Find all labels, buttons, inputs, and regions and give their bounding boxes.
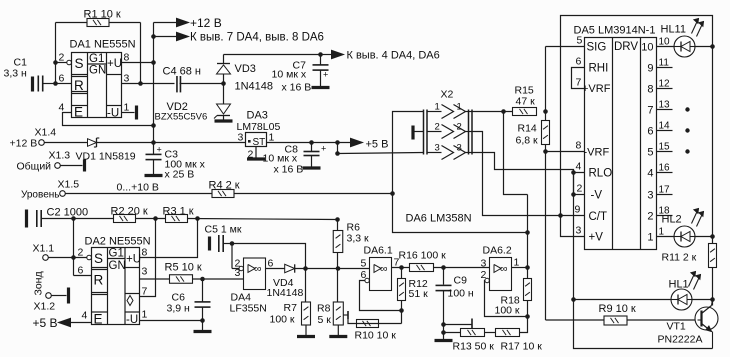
svg-text:10: 10 — [659, 37, 671, 48]
wire pin7 riser — [140, 219, 156, 297]
connector X2 housing — [424, 110, 473, 155]
svg-text:х 25 В: х 25 В — [165, 169, 195, 181]
node R18 bottom — [525, 314, 530, 319]
svg-text:HL2: HL2 — [662, 214, 682, 226]
wire — [154, 142, 246, 144]
resistor R14 — [516, 112, 550, 152]
svg-text:SIG: SIG — [587, 42, 607, 54]
svg-text:LF355N: LF355N — [230, 303, 267, 315]
node rail arrow2 — [151, 34, 156, 39]
svg-text:R17 10 к: R17 10 к — [501, 341, 543, 353]
svg-text:3,3 к: 3,3 к — [347, 233, 370, 245]
svg-text:VT1: VT1 — [667, 321, 686, 333]
svg-text:1: 1 — [269, 132, 275, 144]
svg-text:47 к: 47 к — [516, 96, 536, 108]
ground C6 — [194, 321, 212, 332]
svg-text:3: 3 — [481, 258, 487, 270]
wire -VRF stub — [546, 151, 585, 153]
trimmer tap R13 — [444, 319, 473, 329]
resistor R7 — [270, 269, 311, 326]
svg-text:R13 50 к: R13 50 к — [453, 341, 495, 353]
svg-text:R10 10 к: R10 10 к — [355, 330, 397, 342]
svg-text:BZX55C5V6: BZX55C5V6 — [155, 112, 208, 123]
terminal X1.2 — [34, 293, 56, 313]
node level tap — [390, 191, 395, 196]
node R14 bottom — [543, 149, 548, 154]
svg-text:3: 3 — [435, 143, 440, 154]
wire +5V riser — [337, 143, 339, 154]
ground C7 — [312, 71, 330, 88]
wire — [188, 219, 338, 220]
svg-text:2: 2 — [457, 122, 462, 133]
svg-text:6: 6 — [59, 73, 65, 85]
svg-text:G1: G1 — [109, 248, 124, 260]
label DA6 — [406, 213, 472, 225]
wire DA3 out — [267, 142, 351, 144]
wire — [55, 23, 57, 84]
wire — [193, 278, 244, 280]
svg-text:DA1 NE555N: DA1 NE555N — [70, 39, 136, 51]
op-amp DA4 LF355N — [239, 258, 266, 290]
wire pin2 riser DA4 — [232, 244, 239, 269]
wire +V stub — [561, 16, 713, 237]
svg-text:RLO: RLO — [589, 168, 613, 180]
svg-text:G1: G1 — [89, 53, 104, 65]
svg-text:DA5 LM3914N-1: DA5 LM3914N-1 — [574, 25, 656, 37]
svg-text:4: 4 — [82, 310, 88, 322]
svg-text:Зонд: Зонд — [33, 271, 45, 295]
node R12 bottom — [399, 308, 404, 313]
svg-text:R1 10 к: R1 10 к — [84, 9, 121, 21]
svg-text:C4 68 н: C4 68 н — [163, 66, 201, 78]
svg-text:+5 В: +5 В — [366, 139, 389, 151]
svg-text:1: 1 — [514, 257, 520, 269]
svg-text:C9: C9 — [454, 275, 468, 287]
arrow +5V DA2 pin4 — [33, 316, 92, 330]
capacitor C5 — [205, 224, 242, 253]
resistor R2 — [111, 206, 148, 223]
node pin3 DA1 — [138, 81, 143, 86]
node +5V rail DA2 — [335, 217, 340, 222]
node R5 C6 — [200, 277, 205, 282]
node +5V to X2 — [335, 151, 340, 156]
label DA6.1 — [364, 245, 393, 257]
node +5V branch — [335, 140, 340, 145]
svg-text:R11 2 к: R11 2 к — [662, 252, 697, 264]
connector X2 pin2 — [427, 122, 472, 139]
node HL2 right — [710, 234, 715, 239]
node feedback — [525, 230, 530, 235]
wire -V stub — [574, 194, 585, 196]
diode VD1 1N5819 — [76, 138, 136, 163]
resistor R15 — [513, 85, 537, 116]
wire — [574, 299, 713, 301]
wire — [136, 218, 166, 220]
wire DA6.2 fb — [485, 281, 528, 317]
resistor R12 — [398, 268, 429, 324]
svg-text:R16 100 к: R16 100 к — [399, 250, 447, 262]
svg-text:9: 9 — [647, 63, 653, 75]
svg-text:1N4148: 1N4148 — [235, 81, 274, 93]
svg-text:1: 1 — [659, 227, 665, 238]
arrow +5 V — [351, 138, 389, 150]
svg-text:8: 8 — [647, 84, 653, 96]
svg-text:х 16 В: х 16 В — [274, 164, 304, 176]
timer DA1 NE555N — [67, 53, 122, 120]
svg-text:R9 10 к: R9 10 к — [599, 303, 636, 315]
svg-text:5 к: 5 к — [318, 314, 332, 326]
pin numbers DA3 — [238, 132, 275, 161]
label Zond — [33, 271, 45, 295]
wire — [485, 332, 496, 334]
terminal X1.4 — [10, 127, 57, 150]
resistor R1 — [84, 9, 121, 27]
svg-text:X1.5: X1.5 — [58, 179, 80, 191]
svg-text:15: 15 — [659, 142, 671, 153]
capacitor C7 — [272, 55, 329, 94]
svg-text:DA3: DA3 — [247, 110, 268, 122]
svg-text:3: 3 — [238, 132, 244, 144]
svg-text:5: 5 — [361, 258, 367, 270]
svg-text:1: 1 — [124, 102, 130, 114]
node R6 R8 — [336, 266, 341, 271]
svg-text:2: 2 — [481, 269, 487, 281]
wire +V rail right — [712, 47, 714, 244]
svg-text:C5 1 мк: C5 1 мк — [205, 224, 242, 236]
svg-text:-U: -U — [126, 314, 138, 326]
terminal X1.1 — [33, 243, 55, 261]
wire — [295, 268, 370, 270]
pin numbers DA1 — [59, 52, 130, 114]
wire pin4 DA1 — [63, 113, 154, 126]
capacitor C4 — [163, 66, 201, 93]
node pin2 DA1 — [53, 60, 58, 65]
svg-text:E: E — [94, 312, 103, 327]
svg-text:RHI: RHI — [589, 63, 609, 75]
capacitor C3 — [146, 143, 206, 181]
wire monitor riser — [504, 112, 528, 195]
node C9 tap — [441, 322, 446, 327]
svg-text:10: 10 — [641, 42, 653, 54]
svg-text:E: E — [74, 105, 83, 120]
node SIG junction — [501, 109, 506, 114]
node C6 gnd — [200, 318, 205, 323]
svg-text:11: 11 — [659, 58, 670, 69]
resistor R11 — [662, 244, 717, 300]
svg-text:3: 3 — [457, 143, 462, 154]
resistor R17 — [496, 329, 543, 353]
LED HL11 — [661, 19, 704, 58]
svg-text:3: 3 — [124, 73, 130, 85]
svg-text:0...+10 В: 0...+10 В — [117, 182, 159, 194]
ground VD2 — [215, 116, 233, 122]
capacitor C2 — [27, 207, 89, 228]
node HL11 right — [710, 44, 715, 49]
wire — [74, 218, 114, 220]
wire pin8 DA1 — [122, 62, 154, 64]
wire — [52, 295, 67, 297]
node C3 DA3 in — [151, 140, 156, 145]
svg-text:+12 В: +12 В — [190, 16, 222, 30]
svg-text:16: 16 — [659, 163, 671, 174]
wire pin1 DA2 — [140, 320, 203, 322]
svg-text:1: 1 — [457, 102, 462, 113]
svg-text:8: 8 — [576, 140, 582, 152]
capacitor C8 — [263, 143, 327, 176]
svg-text:VD3: VD3 — [235, 63, 256, 75]
svg-text:S: S — [75, 56, 84, 71]
svg-text:51 к: 51 к — [409, 288, 429, 300]
wire — [140, 23, 142, 84]
wire DA6.2 out — [512, 267, 528, 269]
ground C9 — [435, 339, 453, 342]
svg-text:К выв. 7 DA4, выв. 8 DA6: К выв. 7 DA4, выв. 8 DA6 — [190, 32, 324, 44]
svg-text:1: 1 — [647, 232, 653, 244]
wire — [66, 193, 213, 195]
node -V — [571, 192, 576, 197]
ground R7 — [297, 325, 315, 337]
resistor R9 — [599, 303, 636, 325]
wire riser pins26 — [73, 219, 75, 276]
wire X2 pin3 right — [472, 153, 713, 349]
wire — [49, 258, 92, 276]
node R11 bottom — [710, 297, 715, 302]
svg-text:10 мк х: 10 мк х — [272, 69, 307, 81]
label DA5 — [574, 25, 656, 37]
svg-text:6,8 к: 6,8 к — [516, 135, 539, 147]
svg-text:2: 2 — [435, 122, 440, 133]
svg-text:HL11: HL11 — [661, 24, 686, 36]
node X1.1 pin2 — [71, 255, 76, 260]
wire DA6.1 out — [392, 267, 410, 269]
label 0..10V — [117, 182, 159, 194]
probe electrode X2 — [413, 126, 424, 140]
resistor R16 — [399, 250, 447, 272]
capacitor C6 — [167, 279, 211, 321]
svg-text:5: 5 — [647, 147, 653, 159]
node RLO — [571, 170, 576, 175]
svg-text:R14: R14 — [518, 123, 537, 135]
svg-text:3: 3 — [142, 266, 148, 278]
wire arrow3 — [321, 54, 332, 56]
svg-text:+12 В: +12 В — [10, 138, 38, 150]
svg-text:+: + — [323, 70, 328, 80]
svg-text:3,3 н: 3,3 н — [4, 68, 28, 80]
common bar X1.2 — [67, 288, 70, 304]
wire RLO stub — [574, 173, 585, 195]
arrow +12 V — [177, 16, 222, 30]
wire X2 pin1 left — [393, 112, 528, 233]
resistor R3 — [163, 206, 194, 223]
wire RHI VRF bracket — [572, 68, 585, 89]
svg-text:7: 7 — [647, 105, 653, 117]
wire — [224, 243, 233, 245]
label DA4 — [230, 292, 267, 315]
svg-text:9: 9 — [575, 204, 581, 216]
wire arrow2 — [154, 36, 177, 38]
label DA6.2 — [483, 245, 512, 257]
node R3 right — [195, 216, 200, 221]
svg-text:+VRF: +VRF — [582, 83, 611, 95]
resistor R8 — [317, 302, 343, 326]
terminal X1.3 — [17, 150, 71, 173]
wire pin3 DA1 — [122, 83, 175, 85]
wire — [337, 253, 339, 303]
wire R10 link — [357, 323, 402, 325]
svg-text:PN2222A: PN2222A — [658, 334, 703, 346]
svg-text:-VRF: -VRF — [584, 147, 610, 159]
svg-text:+U: +U — [126, 254, 141, 266]
svg-text:3: 3 — [235, 267, 241, 279]
resistor R10 — [355, 320, 397, 342]
svg-text:DA6.1: DA6.1 — [364, 245, 393, 257]
svg-text:14: 14 — [659, 121, 671, 132]
svg-text:X1.1: X1.1 — [33, 243, 55, 255]
svg-text:∞: ∞ — [380, 263, 388, 275]
connector X2 pin3 — [427, 143, 472, 160]
svg-text:+: + — [157, 145, 162, 155]
node C5 pin2 — [230, 241, 235, 246]
svg-text:6: 6 — [647, 126, 653, 138]
wire SIG stub — [546, 46, 585, 48]
resistor R18 — [495, 268, 532, 317]
common bar X1.3 — [83, 160, 86, 172]
svg-text:1N4148: 1N4148 — [267, 287, 304, 299]
wire — [627, 319, 698, 321]
ground C8 — [303, 156, 321, 169]
terminal X1.5 — [21, 179, 79, 201]
svg-text:12: 12 — [659, 79, 671, 90]
svg-text:+: + — [321, 144, 326, 154]
svg-text:+U: +U — [107, 58, 122, 70]
wire DA4 out — [266, 268, 285, 270]
wire pin1 DA1 — [122, 112, 135, 114]
svg-text:DA6 LM358N: DA6 LM358N — [406, 213, 472, 225]
svg-text:HL1: HL1 — [669, 279, 689, 291]
svg-text:6: 6 — [268, 258, 274, 270]
LED HL1 — [669, 272, 701, 311]
svg-text:-U: -U — [107, 108, 119, 120]
svg-text:1: 1 — [435, 102, 440, 113]
svg-text:X2: X2 — [441, 89, 454, 101]
wire SIG riser — [545, 47, 547, 112]
IC DA5 LM3914N-1 — [582, 38, 657, 250]
op-amp DA6.2 — [485, 258, 512, 291]
svg-text:R8: R8 — [317, 303, 331, 315]
label X2 — [441, 89, 454, 101]
svg-text:+5 В: +5 В — [33, 316, 58, 330]
svg-text:100 к: 100 к — [495, 305, 520, 317]
svg-text:X1.2: X1.2 — [34, 301, 56, 313]
svg-text:7: 7 — [576, 77, 582, 89]
node VD4 R7 — [303, 266, 308, 271]
wire — [695, 236, 713, 238]
wire — [180, 83, 224, 85]
wire — [45, 142, 88, 144]
svg-text:R5 10 к: R5 10 к — [165, 262, 202, 274]
diode VD4 1N4148 — [267, 264, 304, 299]
svg-text:∞: ∞ — [500, 263, 508, 275]
node R12 top — [399, 265, 404, 270]
wire pin3 DA2 — [140, 278, 170, 280]
pin numbers DA5 left — [575, 35, 583, 237]
wire riser to R18 — [527, 195, 529, 268]
node pin6 DA1 — [53, 81, 58, 86]
timer DA2 NE555N — [87, 248, 141, 327]
svg-text:6: 6 — [361, 269, 367, 281]
svg-text:100 н: 100 н — [448, 288, 474, 300]
wire — [695, 46, 713, 48]
pin numbers DA4 — [235, 258, 274, 280]
svg-text:1: 1 — [142, 309, 148, 321]
svg-text:GN: GN — [89, 65, 106, 77]
node CT mode — [558, 213, 563, 218]
resistor R5 — [165, 262, 202, 284]
wire arrow1 — [154, 22, 177, 24]
svg-text:3: 3 — [576, 225, 582, 237]
svg-text:6: 6 — [576, 56, 582, 68]
svg-text:-V: -V — [591, 190, 603, 202]
node C9 top — [441, 265, 446, 270]
op-amp DA6.1 — [365, 258, 392, 291]
capacitor C1 — [4, 57, 56, 92]
diode VD3 1N4148 — [217, 55, 274, 93]
node C8 — [309, 140, 314, 145]
svg-text:2: 2 — [577, 183, 583, 195]
svg-text:5: 5 — [577, 35, 583, 47]
svg-text:R4 2 к: R4 2 к — [209, 180, 240, 192]
svg-text:∞: ∞ — [254, 263, 262, 275]
wire X2 pin2 right — [472, 132, 585, 216]
svg-text:R: R — [94, 273, 104, 288]
LED ellipsis dots — [685, 107, 689, 153]
svg-text:ST: ST — [253, 137, 266, 148]
svg-text:2: 2 — [59, 52, 65, 64]
svg-text:4: 4 — [576, 161, 582, 173]
ground R8 — [329, 325, 347, 337]
svg-text:С/Т: С/Т — [589, 211, 608, 223]
arrow K vyv 4 — [332, 50, 440, 62]
svg-text:GN: GN — [109, 260, 126, 272]
svg-text:7: 7 — [142, 286, 148, 298]
svg-text:100 к: 100 к — [270, 314, 295, 326]
svg-text:2: 2 — [78, 247, 84, 259]
node +12V rail pin8 — [151, 60, 156, 65]
trimmer tap R8 — [343, 311, 356, 324]
node R14 top — [543, 109, 548, 114]
svg-text:R3 1 к: R3 1 к — [163, 206, 194, 218]
regulator DA3 LM78L05 — [237, 110, 281, 149]
wire — [520, 317, 528, 333]
svg-text:+V: +V — [589, 232, 604, 244]
svg-text:8: 8 — [124, 52, 130, 64]
common bar DA1 pin1 — [135, 106, 138, 120]
svg-text:R: R — [74, 78, 84, 93]
resistor R13 — [444, 329, 495, 353]
pin numbers DA6.1 — [361, 257, 400, 282]
svg-text:13: 13 — [659, 100, 671, 111]
svg-text:4: 4 — [59, 102, 65, 114]
LED HL2 — [662, 209, 704, 248]
diode VD2 BZX55C5V6 — [155, 84, 231, 123]
svg-text:C2 1000: C2 1000 — [47, 207, 89, 219]
svg-text:8: 8 — [142, 247, 148, 259]
svg-text:3,9 н: 3,9 н — [167, 303, 191, 315]
wire R9 riser — [545, 152, 547, 321]
node C9 R13 — [441, 330, 446, 335]
svg-text:Уровень: Уровень — [21, 190, 60, 201]
svg-text:DRV: DRV — [614, 41, 638, 53]
